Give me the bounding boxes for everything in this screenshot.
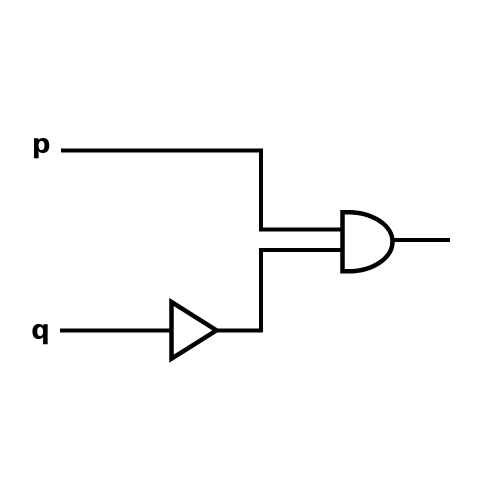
wire from q to buffer (60, 329, 172, 333)
wire AND gate top input (259, 228, 344, 232)
wire buffer output to corner (218, 329, 263, 333)
AND gate U2 (343, 212, 393, 271)
wire vertical drop from p (259, 149, 263, 232)
wire from p to corner (61, 149, 263, 153)
wire AND gate bottom input (259, 248, 344, 252)
svg-text:p: p (32, 129, 50, 158)
buffer U1 (triangle) (172, 302, 217, 359)
wire AND gate output (391, 238, 450, 242)
svg-text:q: q (32, 315, 50, 344)
wire vertical riser from buffer output (259, 248, 263, 333)
